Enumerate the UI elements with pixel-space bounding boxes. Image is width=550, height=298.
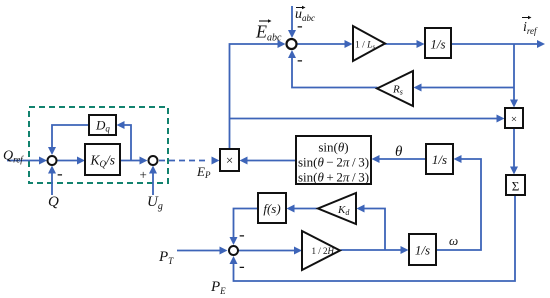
wire Qref input (7, 157, 47, 165)
summing junction 1 (48, 156, 57, 165)
wire summing1 to KQ/s (58, 157, 86, 165)
wire theta to sin block (372, 155, 426, 163)
block Dq (89, 115, 116, 135)
gain triangle Rs (377, 71, 413, 106)
label uabc vector (295, 6, 315, 23)
svg-text:1 / Ls: 1 / Ls (355, 41, 375, 52)
svg-text:+: + (140, 167, 147, 182)
svg-text:-: - (297, 50, 303, 69)
wire summing3 to 1/Ls (298, 40, 353, 48)
svg-text:1 / 2H: 1 / 2H (312, 246, 335, 256)
gain triangle 1/Ls (353, 26, 385, 61)
wire Q input (48, 166, 56, 196)
summing junction 2 (149, 156, 158, 165)
wire sin block to multiplier1 (240, 157, 296, 165)
block sin functions (296, 136, 371, 185)
integrator 1 top (425, 28, 451, 58)
svg-text:Q: Q (48, 194, 59, 210)
wire Eabc multiplier1 up to summing3 (230, 40, 286, 148)
svg-text:1/s: 1/s (430, 37, 445, 52)
dashed Q-control boundary box (29, 107, 168, 183)
multiplier 1 (220, 149, 239, 171)
svg-text:-: - (57, 164, 63, 183)
block sigma (506, 175, 525, 195)
svg-text:-: - (297, 16, 303, 35)
svg-text:sin(θ − 2π / 3): sin(θ − 2π / 3) (298, 155, 369, 170)
svg-text:×: × (226, 153, 233, 168)
wire branch to Kd (357, 205, 386, 251)
wire PE feedback sigma to summing4 (230, 196, 516, 282)
svg-text:sin(θ): sin(θ) (318, 140, 348, 155)
gain triangle Kd (318, 193, 356, 224)
svg-text:1/s: 1/s (415, 243, 430, 258)
svg-text:f(s): f(s) (263, 201, 280, 216)
wire Dq to summing1 (48, 125, 89, 155)
svg-text:θ: θ (395, 144, 403, 160)
svg-text:×: × (511, 114, 517, 126)
svg-text:sin(θ + 2π / 3): sin(θ + 2π / 3) (298, 170, 369, 185)
integrator omega (409, 234, 436, 265)
wire iref feedback to Rs (414, 84, 515, 92)
integrator theta (426, 144, 453, 174)
svg-text:Σ: Σ (512, 179, 520, 194)
block f(s) (258, 193, 286, 223)
multiplier 2 (505, 108, 523, 128)
wire 1/2H to integrator omega (341, 246, 409, 254)
block KQ/s (85, 144, 120, 175)
summing junction 4 (229, 246, 238, 255)
wire summing4 to 1/2H (239, 247, 303, 255)
wire Ep dashed to multiplier1 (159, 157, 220, 165)
wire uabc input (288, 6, 296, 38)
label Eabc vector (255, 19, 282, 43)
wire PT input (177, 247, 228, 255)
wire f(s) to summing4 (230, 209, 258, 246)
wire omega to integrator theta (436, 155, 481, 250)
summing junction 3 (287, 39, 297, 49)
wire KQ/s to summing2 (121, 157, 148, 165)
svg-text:ω: ω (449, 233, 458, 248)
svg-text:-: - (239, 257, 245, 276)
wire Rs to summing3 (288, 50, 378, 88)
wire iref branch down to multiplier2 (510, 44, 518, 108)
wire iref output (451, 40, 545, 48)
wire Eabc branch to multiplier2 (230, 115, 505, 123)
wire Ug input (149, 166, 157, 196)
gain triangle 1/2H (302, 231, 340, 270)
wire Kd to f(s) (287, 205, 318, 213)
label iref vector (522, 16, 538, 36)
wire 1/Ls to integrator1 (385, 40, 425, 48)
svg-text:1/s: 1/s (432, 152, 447, 167)
svg-text:-: - (239, 225, 245, 244)
wire multiplier2 to sigma (510, 129, 518, 175)
wire branch into Dq (117, 121, 132, 161)
